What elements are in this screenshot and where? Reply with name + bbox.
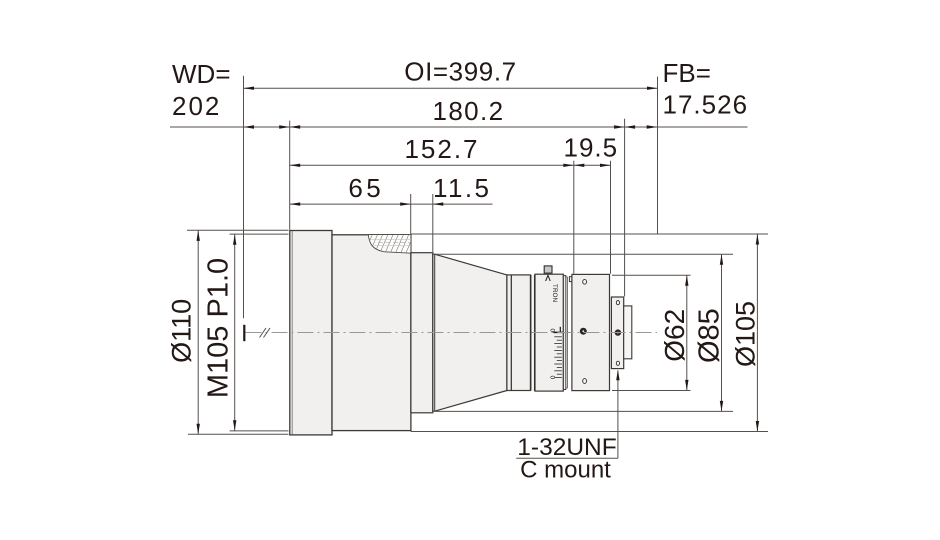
cone left face line xyxy=(434,254,436,411)
step cylinder behind barrel xyxy=(411,253,433,413)
svg-text:0: 0 xyxy=(548,376,555,380)
cutaway internal thread lines xyxy=(371,238,411,240)
M105 bottom extension line xyxy=(230,430,289,432)
focus zero tick above index xyxy=(559,327,561,333)
flange face extension line (FB/180.2) xyxy=(624,119,626,297)
phi85 top extension line xyxy=(435,253,733,255)
svg-text:Ø105: Ø105 xyxy=(731,301,761,367)
180.2 left arrow xyxy=(290,125,301,128)
C-mount thread stub (1-32UNF) xyxy=(624,306,632,359)
65/11.5 dimension line xyxy=(290,203,493,205)
C-mount leader arrow xyxy=(616,370,619,381)
M105 dimension line xyxy=(234,234,236,431)
FB right arrow xyxy=(647,125,658,128)
phi85 bottom arrow xyxy=(720,401,723,412)
svg-text:C mount: C mount xyxy=(520,457,611,484)
phi85 bottom extension line xyxy=(435,410,733,412)
svg-text:180.2: 180.2 xyxy=(432,96,504,126)
M105 bottom arrow xyxy=(233,420,236,431)
svg-text:Ø62: Ø62 xyxy=(659,309,690,362)
narrow ring strip A behind focus ring xyxy=(563,276,565,390)
svg-text:11.5: 11.5 xyxy=(433,173,491,203)
focus index line xyxy=(554,331,569,333)
mount block screw hole bottom xyxy=(583,379,587,384)
phi110 bottom arrow xyxy=(197,424,200,435)
65 right arrow xyxy=(400,202,411,205)
image plane extension line xyxy=(657,77,659,234)
phi105 top extension line xyxy=(411,233,768,235)
mount block screw hole top xyxy=(583,279,587,284)
phi110 top arrow xyxy=(197,230,200,241)
WD right arrow xyxy=(279,125,290,128)
main barrel (M105 / φ105 body) xyxy=(332,235,411,431)
svg-text:M105 P1.0: M105 P1.0 xyxy=(203,258,235,398)
knob on focus ring xyxy=(544,266,552,273)
flange screw hole top xyxy=(616,301,619,305)
svg-text:WD=: WD= xyxy=(172,59,231,89)
groove ring before focus ring xyxy=(530,275,535,391)
WD/180.2/FB dimension line xyxy=(170,126,748,128)
barrel rear extension line (65/11.5) xyxy=(410,194,412,234)
M105 top extension line xyxy=(230,233,289,235)
object plane extension line xyxy=(243,76,245,319)
phi110 top extension line xyxy=(187,229,289,231)
152.7/19.5 dimension line xyxy=(290,164,611,166)
index pointer under knob xyxy=(546,275,551,281)
front face extension line xyxy=(289,121,291,230)
focus ring xyxy=(535,274,563,391)
180.2 right arrow xyxy=(614,125,625,128)
19.5 right arrow xyxy=(600,164,611,167)
phi110 bottom extension line xyxy=(188,433,289,435)
svg-text:Ø110: Ø110 xyxy=(167,299,197,363)
phi62 top arrow xyxy=(685,275,688,286)
lens front ring (φ110 barrel) xyxy=(290,231,332,435)
phi62 dimension line xyxy=(686,275,688,390)
phi62 bottom extension line xyxy=(612,390,691,392)
OI left arrow xyxy=(244,87,255,90)
phi105 bottom arrow xyxy=(756,421,759,432)
svg-text:17.526: 17.526 xyxy=(663,89,749,119)
mount block rear extension line (19.5) xyxy=(610,161,612,274)
svg-text:TRON: TRON xyxy=(551,284,558,302)
cone front extension line (11.5) xyxy=(432,194,434,254)
OI right arrow xyxy=(647,87,658,90)
svg-text:19.5: 19.5 xyxy=(563,132,618,162)
svg-text:65: 65 xyxy=(348,173,384,203)
phi105 top arrow xyxy=(756,234,759,245)
WD left arrow xyxy=(244,125,255,128)
rear cylinder internal edge line xyxy=(510,275,512,391)
flange center screw xyxy=(615,329,621,335)
C-mount flange plate xyxy=(611,297,623,369)
svg-text:0: 0 xyxy=(548,329,555,333)
phi62 bottom arrow xyxy=(685,380,688,391)
svg-text:202: 202 xyxy=(172,91,221,121)
cone (taper section, φ85) xyxy=(433,254,507,411)
small tab on mount block left top xyxy=(569,277,574,282)
phi110 dimension line xyxy=(197,230,199,434)
centerline break slash 2 xyxy=(264,328,271,338)
65 left arrow xyxy=(290,202,301,205)
C-mount label underline xyxy=(516,457,618,459)
object plane tick on axis xyxy=(243,325,245,341)
OI dimension line xyxy=(244,87,658,89)
phi62 top extension line xyxy=(612,274,691,276)
C-mount leader vertical line xyxy=(617,371,619,459)
M105 top arrow xyxy=(233,234,236,245)
svg-text:Ø85: Ø85 xyxy=(694,308,726,363)
centerline break slash 1 xyxy=(260,328,267,338)
mount block center screw xyxy=(580,328,587,335)
phi85 top arrow xyxy=(720,254,723,265)
152.7 left arrow xyxy=(290,164,301,167)
rear cylinder (φ62 section) xyxy=(507,275,531,391)
hatch lines of cutaway xyxy=(363,233,420,256)
152.7 right arrow xyxy=(563,164,574,167)
svg-text:OI=399.7: OI=399.7 xyxy=(404,57,517,87)
phi105 dimension line xyxy=(756,234,758,432)
front ring inner chamfer line xyxy=(291,231,293,435)
mount block front extension line (152.7/19.5) xyxy=(573,161,575,274)
11.5 outside arrow xyxy=(433,202,444,205)
svg-text:152.7: 152.7 xyxy=(404,134,479,164)
narrow ring strip B xyxy=(566,277,568,388)
phi105 bottom extension line xyxy=(411,431,768,433)
flange screw hole bottom xyxy=(616,361,619,365)
hatched cutaway section on barrel top xyxy=(368,235,411,254)
mount block (φ62 rear block) xyxy=(572,274,610,390)
svg-text:FB=: FB= xyxy=(663,58,711,88)
optical axis centerline xyxy=(246,332,658,334)
FB left arrow xyxy=(625,125,636,128)
19.5 left arrow xyxy=(574,164,585,167)
focus scale ticks xyxy=(554,337,562,378)
phi85 dimension line xyxy=(721,254,723,411)
